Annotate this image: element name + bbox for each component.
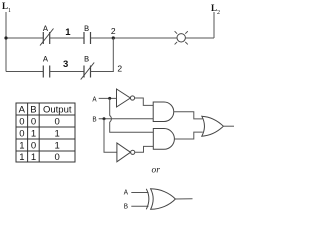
svg-text:A: A — [92, 96, 97, 104]
svg-text:1: 1 — [19, 141, 24, 152]
svg-text:A: A — [19, 105, 26, 116]
wire A to XOR — [131, 192, 148, 194]
svg-text:A: A — [124, 190, 129, 198]
svg-text:2: 2 — [217, 10, 220, 16]
svg-text:or: or — [152, 166, 161, 176]
svg-text:B: B — [124, 203, 128, 211]
rail label L2 — [211, 3, 220, 16]
svg-text:0: 0 — [19, 129, 24, 140]
svg-text:0: 0 — [55, 152, 60, 163]
junction node 2 — [112, 36, 115, 39]
svg-text:A: A — [43, 54, 49, 64]
table row 1 0 1 — [19, 141, 59, 152]
inverter U2 bottom NOT gate — [117, 143, 135, 162]
svg-text:B: B — [92, 117, 96, 125]
svg-text:B: B — [84, 54, 89, 64]
svg-text:0: 0 — [31, 141, 36, 152]
junction A — [108, 97, 111, 100]
wire AND2 output to OR — [174, 132, 202, 139]
svg-text:B: B — [30, 105, 36, 116]
inverter U1 top NOT gate — [117, 89, 135, 107]
table row 0 1 1 — [19, 129, 59, 140]
wire A branch down with hop over B — [110, 98, 154, 132]
truth table frame — [16, 103, 75, 162]
wire B branch down to inverter U2 — [104, 119, 117, 153]
svg-text:3: 3 — [63, 59, 68, 70]
svg-text:1: 1 — [19, 152, 24, 163]
svg-text:1: 1 — [55, 141, 60, 152]
wire rung1 right — [91, 37, 178, 39]
svg-text:1: 1 — [8, 8, 11, 14]
svg-text:0: 0 — [19, 117, 24, 128]
contact B (NC) rung 2 — [81, 63, 95, 80]
wire XOR output — [175, 198, 192, 200]
wire rung2 left — [6, 71, 43, 73]
wire rung2 right — [91, 71, 114, 73]
OR gate U5 — [202, 116, 224, 136]
svg-text:2: 2 — [111, 26, 116, 36]
junction on left rail rung1 — [4, 36, 7, 39]
svg-text:0: 0 — [55, 117, 60, 128]
contact A (NO) rung 2 — [43, 66, 49, 78]
wire OR output — [223, 125, 234, 127]
AND gate U4 bottom — [153, 129, 174, 150]
svg-text:A: A — [43, 24, 49, 34]
table row 1 1 0 — [19, 152, 59, 163]
table row 0 0 0 — [19, 117, 59, 128]
svg-text:2: 2 — [117, 64, 122, 74]
wire node2 vertical — [112, 38, 114, 72]
svg-text:1: 1 — [31, 152, 36, 163]
rail label L1 — [2, 1, 11, 14]
wire U1 output to AND1 — [135, 98, 154, 105]
svg-text:1: 1 — [31, 129, 36, 140]
wire rung2 mid — [50, 71, 84, 73]
pilot lamp output — [175, 31, 188, 44]
wire rung1 left — [6, 37, 43, 39]
wire lamp to right rail — [185, 37, 214, 39]
right power rail L2 — [213, 12, 215, 38]
wire input A — [99, 97, 117, 99]
svg-text:B: B — [84, 24, 89, 34]
XOR gate U6 — [146, 189, 175, 210]
svg-text:Output: Output — [43, 105, 72, 116]
svg-text:1: 1 — [55, 129, 60, 140]
svg-text:1: 1 — [65, 27, 71, 38]
table header A B Output — [19, 105, 72, 116]
contact A (NC) rung 1 — [40, 29, 54, 46]
wire AND1 output to OR — [174, 112, 203, 119]
left power rail L1 — [5, 12, 7, 72]
wire rung1 mid — [50, 37, 84, 39]
AND gate U3 top — [153, 102, 174, 122]
wire U2 output to AND2 — [135, 146, 154, 152]
svg-text:0: 0 — [31, 117, 36, 128]
wire B to XOR — [131, 205, 148, 207]
wire input B — [99, 118, 154, 120]
junction B — [103, 117, 106, 120]
contact B (NO) rung 1 — [84, 32, 91, 44]
